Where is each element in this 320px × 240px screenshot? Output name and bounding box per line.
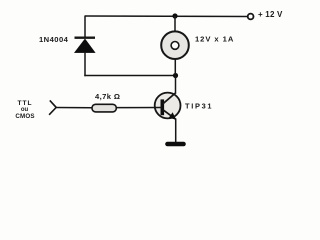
wire input to resistor: [56, 107, 92, 109]
svg-text:1N4004: 1N4004: [39, 35, 69, 44]
svg-text:TTL: TTL: [17, 100, 32, 107]
svg-text:4,7k Ω: 4,7k Ω: [95, 92, 120, 101]
wire motor bottom lead to collector node: [174, 59, 176, 75]
svg-text:12V x 1A: 12V x 1A: [195, 35, 234, 44]
svg-text:TIP31: TIP31: [185, 102, 213, 111]
wire emitter down: [175, 119, 177, 143]
node junction top rail: [172, 13, 177, 18]
wire resistor to base: [116, 107, 161, 109]
node junction collector: [173, 73, 178, 78]
label TTL ou CMOS: [15, 100, 34, 120]
resistor R1 4,7k: [92, 104, 116, 112]
wire motor top lead: [174, 16, 176, 31]
diode 1N4004: [75, 38, 96, 53]
wire collector lead: [175, 76, 177, 94]
motor M1 12V x 1A: [161, 31, 189, 59]
svg-text:CMOS: CMOS: [15, 113, 34, 120]
wire top rail: [85, 15, 248, 18]
terminal +12V open circle: [248, 14, 254, 20]
node input terminal chevron: [49, 100, 56, 114]
ground: [168, 142, 184, 147]
transistor Q1 TIP31: [155, 93, 181, 120]
wire bottom loop horizontal: [84, 75, 175, 77]
svg-text:+ 12 V: + 12 V: [258, 10, 283, 19]
wire anode down to bottom loop: [84, 52, 86, 76]
wire left vertical (cathode side): [84, 16, 86, 39]
